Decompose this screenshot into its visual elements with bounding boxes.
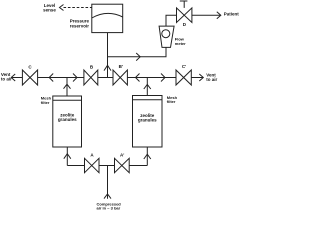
- valve C': [176, 70, 191, 85]
- flow meter body: [159, 26, 174, 47]
- svg-text:granules: granules: [138, 118, 157, 123]
- arrowhead: patient arrow pointing right: [217, 12, 221, 19]
- label: Flow meter: [175, 37, 186, 46]
- valve C: [22, 70, 37, 85]
- wire: valve C' to right vent: [191, 77, 202, 79]
- label: B: [90, 64, 94, 69]
- svg-text:B: B: [90, 64, 94, 69]
- label: Mesh filter (right): [167, 95, 178, 104]
- valve A: [85, 158, 100, 172]
- label: Mesh filter (left): [41, 96, 52, 105]
- wire: valve C to valve B segment: [38, 77, 84, 79]
- label: Patient: [224, 11, 240, 16]
- label: Compressed air in ~ 3 bar: [97, 201, 122, 210]
- label: Vent to air (left): [1, 72, 12, 81]
- label: Level sense: [43, 3, 56, 12]
- wire: valve D to patient outlet: [192, 14, 220, 16]
- wire: valve A' to right column stem: [129, 165, 147, 167]
- label: C: [28, 65, 32, 70]
- label: D: [183, 22, 187, 27]
- label: Pressure reservoir: [70, 19, 90, 29]
- svg-text:meter: meter: [175, 41, 186, 46]
- wire: reservoir stem down to middle manifold: [107, 33, 109, 78]
- arrowhead: up-chevron on reservoir stem: [104, 65, 111, 70]
- arrowhead: up-chevron on left bottom stem: [64, 154, 71, 159]
- zeolite column (right): [133, 96, 163, 148]
- wire: dashed level-sense signal line: [64, 7, 92, 9]
- pressure reservoir vessel: [92, 4, 123, 32]
- label: zeolite granules (left): [58, 113, 77, 123]
- svg-text:granules: granules: [58, 117, 77, 122]
- valve A': [115, 158, 130, 172]
- svg-text:to air: to air: [1, 77, 12, 82]
- svg-text:D: D: [183, 22, 187, 27]
- arrowhead: right vent arrow pointing right: [199, 74, 203, 81]
- label: B': [119, 64, 123, 69]
- wire: flow meter top to valve D: [166, 15, 177, 26]
- arrowhead: up-chevron on right bottom stem: [144, 154, 151, 159]
- valve D: [177, 1, 192, 23]
- arrowhead: level-sense arrow pointing left: [60, 5, 64, 11]
- mesh filter (left, top of column): [53, 99, 82, 101]
- arrowhead: up-chevron on right column top branch: [144, 85, 151, 90]
- svg-text:filter: filter: [167, 99, 176, 104]
- svg-text:filter: filter: [41, 100, 50, 105]
- wire: left vent to valve C: [11, 77, 22, 79]
- wire: bottom manifold left segment: [67, 165, 84, 167]
- svg-text:air in ~ 3 bar: air in ~ 3 bar: [97, 205, 121, 210]
- svg-text:B': B': [119, 64, 123, 69]
- arrowhead: left vent arrow pointing left: [11, 74, 15, 81]
- wire: branch from reservoir stem to flow meter: [108, 47, 167, 56]
- arrowhead: right-chevron before valve B: [73, 74, 77, 82]
- arrowhead: up-chevron on left column top branch: [64, 84, 71, 89]
- svg-text:reservoir: reservoir: [70, 24, 90, 29]
- wire: valve B' to valve C' segment: [127, 77, 176, 79]
- label: Vent to air (right): [206, 73, 217, 82]
- svg-text:Patient: Patient: [224, 11, 239, 16]
- wire: valve A to valve A' segment: [99, 165, 115, 167]
- svg-text:C: C: [28, 65, 32, 70]
- svg-text:A': A': [120, 153, 124, 158]
- wire: right column bottom stem: [146, 147, 148, 166]
- svg-text:to air: to air: [206, 77, 217, 82]
- arrowhead: left-chevron after valve B': [136, 74, 140, 82]
- wire: valve B to valve B' segment: [98, 77, 113, 79]
- zeolite column (left): [53, 96, 82, 147]
- wire: compressed air inlet riser: [107, 166, 109, 199]
- valve B: [84, 70, 98, 85]
- label: zeolite granules (right): [138, 113, 157, 123]
- wire: left column bottom stem: [66, 147, 68, 166]
- arrowhead: right-chevron before valve C': [161, 74, 165, 82]
- svg-text:sense: sense: [43, 8, 56, 13]
- svg-text:A: A: [90, 152, 94, 157]
- label: C': [182, 64, 186, 69]
- label: A': [120, 153, 124, 158]
- node: left column tee on middle manifold: [66, 78, 68, 97]
- arrowhead: left-chevron between C and left column junction: [49, 74, 53, 82]
- node: right column tee on middle manifold: [146, 78, 148, 96]
- arrowhead: right-chevron on flow-meter branch: [136, 53, 140, 61]
- mesh filter (right, top of column): [133, 99, 163, 101]
- svg-text:C': C': [182, 64, 186, 69]
- arrowhead: up-chevron on compressed air inlet: [104, 194, 111, 199]
- label: A: [90, 152, 94, 157]
- valve B': [113, 70, 127, 85]
